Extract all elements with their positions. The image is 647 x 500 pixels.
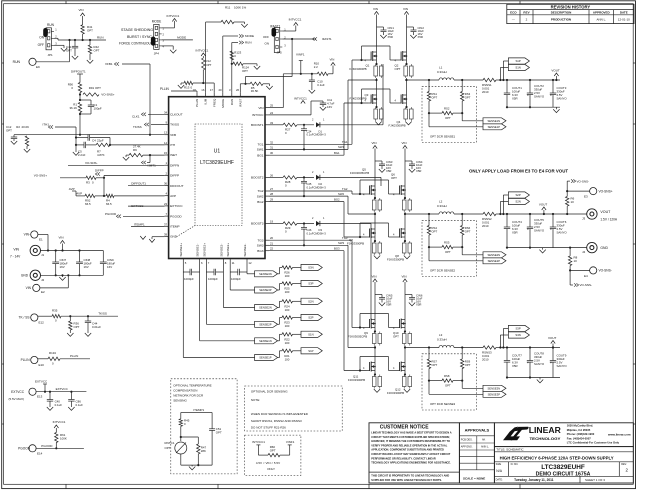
svg-text:CIRCUIT BOARD LAYOUT MAY SIGNI: CIRCUIT BOARD LAYOUT MAY SIGNIFICANTLY A… (371, 452, 450, 456)
ground at JP1 pin3 (54, 44, 64, 46)
svg-text:22: 22 (270, 247, 274, 251)
svg-text:VIN-: VIN- (24, 233, 30, 237)
svg-text:TG3: TG3 (342, 236, 348, 240)
svg-text:SW2: SW2 (257, 194, 264, 198)
svg-text:1000pF: 1000pF (184, 277, 194, 281)
svg-text:E9: E9 (36, 65, 40, 69)
net flag S3N (301, 264, 322, 270)
svg-text:15: 15 (164, 151, 168, 155)
wire TG2 gate drive with bridge (269, 190, 352, 192)
capacitor COUT3 330uF 2.5V SANYO (552, 80, 554, 93)
snubber blocks below bottom FETs (372, 377, 376, 387)
wire MODE net from JP4 pin3 (162, 39, 193, 41)
svg-text:ON: ON (39, 36, 44, 40)
resistor R24 100 (282, 300, 293, 303)
transistor Q11 bottom left (369, 362, 371, 371)
svg-text:TG2: TG2 (257, 189, 263, 193)
svg-text:E4: E4 (584, 274, 588, 278)
net MODE chevron (222, 36, 224, 93)
resistor RSNS2 0.001 2010 sense (483, 212, 496, 215)
net flag SENSE2P (255, 321, 278, 327)
svg-text:J3: J3 (582, 217, 586, 221)
svg-text:X5R: X5R (418, 35, 423, 39)
svg-text:+: + (527, 361, 529, 365)
resistor RS3 OPT (461, 80, 463, 92)
svg-text:FJK03300PB: FJK03300PB (387, 258, 404, 262)
transistor Q12 bottom right (399, 362, 401, 371)
svg-text:ONLY: ONLY (267, 467, 275, 471)
svg-text:22pF: 22pF (97, 139, 104, 143)
U1 top pins (196, 93, 198, 97)
svg-text:RUN: RUN (230, 99, 234, 106)
svg-text:X5R: X5R (512, 97, 518, 101)
svg-text:1630 McCarthy Blvd.: 1630 McCarthy Blvd. (567, 424, 594, 428)
svg-text:TG3: TG3 (257, 238, 263, 242)
svg-text:VIN: VIN (372, 141, 377, 145)
resistor RS1 OPT (428, 80, 430, 92)
net flag S2N (508, 198, 529, 204)
svg-text:RS5: RS5 (444, 241, 450, 245)
wire output bottom rail phase 2 (507, 247, 560, 249)
svg-text:RS2: RS2 (444, 107, 450, 111)
svg-text:0.33uH: 0.33uH (437, 204, 447, 208)
svg-text:J4: J4 (582, 250, 586, 254)
snubber blocks below top FETs (372, 334, 376, 344)
wire output bottom rail phase 3 (507, 377, 560, 379)
svg-text:CMDSH-3: CMDSH-3 (314, 133, 327, 137)
capacitor CIN2 10uF 16V X5R (407, 26, 414, 28)
svg-text:INTVCC1: INTVCC1 (294, 97, 307, 101)
capacitor CIN9 180uF 16V (102, 251, 104, 263)
svg-text:SENSE2+: SENSE2+ (202, 243, 206, 257)
svg-text:VO-SNS+: VO-SNS+ (101, 93, 115, 97)
svg-text:0.1uF: 0.1uF (317, 83, 325, 87)
revision history table (507, 4, 634, 23)
svg-text:OPT: OPT (95, 86, 101, 90)
svg-text:MODE: MODE (221, 99, 225, 108)
svg-text:L3: L3 (439, 333, 443, 337)
wire SENSE1P from U1 pin (182, 272, 184, 358)
svg-text:SW1: SW1 (338, 145, 345, 149)
svg-text:INTVCC1: INTVCC1 (196, 49, 209, 53)
resistor R25 100 (282, 282, 293, 285)
ground temp network (191, 465, 193, 466)
capacitor COUT6 330uF 2.5V SANYO (552, 214, 554, 227)
wire bottom of temp network (181, 464, 212, 466)
svg-text:LINEAR: LINEAR (529, 426, 561, 435)
svg-text:TK/SS: TK/SS (170, 123, 179, 127)
dashed box OPT DCR SENSE3 (422, 354, 476, 410)
svg-text:OPT: OPT (445, 116, 451, 120)
svg-text:VINF1: VINF1 (296, 53, 305, 57)
svg-text:SW3: SW3 (257, 244, 264, 248)
svg-text:SENSING: SENSING (173, 399, 187, 403)
wire SENSE1N from U1 pin (199, 272, 201, 341)
svg-text:VOUT: VOUT (600, 210, 611, 214)
wire RUN horizontal (54, 37, 58, 39)
svg-text:OPT DCR SENSE2: OPT DCR SENSE2 (430, 269, 456, 273)
svg-text:100: 100 (285, 357, 290, 361)
capacitor C44 0.01uF (87, 316, 89, 321)
jack J3 VOUT output (560, 213, 587, 215)
svg-text:DIFFP: DIFFP (170, 174, 179, 178)
svg-text:C4: C4 (92, 139, 96, 143)
svg-text:VO-SNS+: VO-SNS+ (599, 189, 613, 193)
svg-text:OPT: OPT (465, 363, 471, 367)
svg-text:R91: R91 (89, 86, 95, 90)
svg-text:E1: E1 (39, 238, 43, 242)
svg-text:VIN: VIN (402, 275, 407, 279)
svg-text:X5R: X5R (386, 303, 391, 307)
svg-text:OPT: OPT (393, 335, 399, 339)
transistor Q1 FJK03300PB top left (370, 52, 372, 61)
svg-text:S3P: S3P (308, 282, 313, 286)
svg-text:29: 29 (270, 198, 274, 202)
net flag SENSE2N (255, 305, 278, 311)
svg-text:12-01-10: 12-01-10 (618, 18, 630, 22)
svg-text:E14: E14 (37, 451, 43, 455)
svg-text:SANYO: SANYO (557, 231, 568, 235)
resistor R91 OPT to VO-SNS+ (83, 93, 99, 96)
svg-text:VOUT: VOUT (548, 336, 557, 340)
svg-text:27: 27 (270, 187, 274, 191)
transistor Q5 FJK03005CPB top left (369, 186, 371, 195)
svg-text:28: 28 (270, 192, 274, 196)
svg-text:S2N: S2N (515, 200, 520, 204)
svg-text:PERFORMANCE OR RELIABILITY. C: PERFORMANCE OR RELIABILITY. CONTACT LINE… (371, 456, 436, 460)
transistor Q7 bottom left (369, 229, 371, 238)
U1 right pins (265, 107, 269, 109)
svg-text:VO-SNS-: VO-SNS- (580, 283, 593, 287)
capacitor C5 2.2nF (76, 144, 84, 146)
dashed box low VIN option (245, 435, 301, 475)
svg-text:26: 26 (236, 88, 240, 92)
svg-text:GND: GND (600, 246, 608, 250)
svg-text:R11: R11 (225, 6, 231, 10)
svg-text:TK / SS: TK / SS (19, 316, 30, 320)
wire RUN from E9 to JP1 net (36, 61, 69, 63)
svg-text:PCB DES.: PCB DES. (461, 438, 473, 441)
resistor R26 100 (282, 266, 293, 269)
svg-text:VO-SNS-: VO-SNS- (577, 179, 590, 183)
svg-text:36.1K: 36.1K (69, 106, 77, 110)
svg-text:0.01uF: 0.01uF (92, 325, 101, 329)
ground at R11 (241, 24, 247, 27)
wire output bottom rail phase 1 (507, 106, 560, 108)
wire TG1 gate drive with bridge (269, 143, 352, 145)
svg-text:X5R: X5R (388, 35, 393, 39)
resistor R60 OPT (258, 454, 268, 456)
svg-text:100: 100 (285, 290, 290, 294)
svg-text:17: 17 (210, 88, 214, 92)
resistor R42 OPT (89, 40, 91, 45)
svg-text:NOTE:: NOTE: (251, 398, 260, 402)
svg-text:20.0K: 20.0K (22, 125, 30, 129)
grounds of bank 1 (375, 122, 381, 125)
svg-text:VIN: VIN (79, 8, 84, 12)
svg-text:36: 36 (164, 182, 168, 186)
svg-text:S1N: S1N (515, 66, 520, 70)
svg-text:ITEMP: ITEMP (170, 225, 179, 229)
ground output phase 2 (542, 248, 544, 250)
capacitor COUT2 330uF 2.5V SANYO (529, 80, 531, 93)
capacitor C25 0.1uF boost (303, 177, 305, 181)
svg-text:OPT: OPT (432, 363, 438, 367)
svg-text:4.87K: 4.87K (97, 153, 105, 157)
svg-text:OPT DCR SENSE1: OPT DCR SENSE1 (430, 135, 456, 139)
svg-text:ITEMP1: ITEMP1 (134, 223, 145, 227)
svg-text:R2: R2 (16, 125, 20, 129)
svg-text:+: + (527, 228, 529, 232)
svg-text:DO NOT STUFF R21-R26: DO NOT STUFF R21-R26 (251, 426, 286, 430)
svg-text:7 - 14V: 7 - 14V (10, 255, 21, 259)
svg-text:DATE: DATE (620, 11, 628, 15)
svg-text:20: 20 (218, 88, 222, 92)
net flag SENSE1P (428, 120, 430, 127)
svg-text:SENSE3N: SENSE3N (488, 386, 501, 390)
svg-text:SENSE3N: SENSE3N (259, 272, 272, 276)
net INTVCC1 with capacitor C11 4.7uF 16V (269, 114, 311, 116)
dashed box optional DCR sensing notes (245, 386, 343, 431)
svg-text:34: 34 (164, 110, 168, 114)
svg-text:16: 16 (201, 88, 205, 92)
svg-text:100: 100 (285, 341, 290, 345)
net flag S3N (508, 332, 529, 338)
svg-text:SENSE2P: SENSE2P (259, 322, 272, 326)
wire SENSE3N from U1 pin (246, 272, 248, 274)
capacitor C1 100pF (80, 99, 91, 101)
svg-text:APPROVED: APPROVED (593, 11, 611, 15)
svg-text:IFAST: IFAST (238, 99, 242, 108)
svg-text:25: 25 (270, 104, 274, 108)
net flag S2P (301, 314, 322, 320)
svg-text:BG2: BG2 (257, 200, 263, 204)
svg-text:DIFFOUT: DIFFOUT (170, 184, 184, 188)
svg-text:E3: E3 (584, 195, 588, 199)
svg-text:OPT: OPT (74, 325, 80, 329)
resistor R47 28K (181, 436, 199, 438)
svg-text:S2P: S2P (308, 316, 313, 320)
svg-text:TG1: TG1 (257, 143, 263, 147)
svg-text:11: 11 (232, 261, 235, 265)
svg-text:E12: E12 (39, 321, 45, 325)
diode D3 CMDSH-3 (316, 221, 320, 226)
resistor RS4 OPT (428, 214, 430, 226)
svg-text:SENSE1P: SENSE1P (259, 356, 272, 360)
svg-text:AK: AK (482, 438, 486, 441)
svg-text:DIFFOUT1: DIFFOUT1 (71, 70, 86, 74)
svg-text:GND: GND (170, 235, 178, 239)
svg-text:31: 31 (270, 145, 274, 149)
svg-text:TK/SS: TK/SS (133, 125, 142, 129)
capacitor C23 1000pF (229, 263, 231, 273)
capacitor C4 22pF (75, 136, 77, 138)
resistor RSNS1 0.001 2010 sense (483, 78, 496, 81)
net flag SENSE1N (255, 338, 278, 344)
snubber blocks below bottom FETs (372, 243, 376, 253)
svg-text:OPT: OPT (432, 229, 438, 233)
resistor R28 0 boost (269, 176, 283, 178)
svg-text:66.5: 66.5 (85, 202, 91, 206)
wire GND rail (41, 274, 104, 276)
capacitor COUT9 330uF 2.5V SANYO (552, 348, 554, 361)
svg-text:24: 24 (270, 111, 274, 115)
svg-text:IFAST1: IFAST1 (322, 37, 332, 41)
wire BG1 gate drive with bridge (269, 154, 344, 156)
capacitor COUT1 100uF 6.3V X5R (506, 80, 508, 93)
svg-text:EXTVCC: EXTVCC (56, 387, 69, 391)
svg-text:+: + (550, 228, 552, 232)
wire IFAST net from JP5 pin2 (282, 38, 316, 40)
net CLK1 chevron on CLKOUT (148, 113, 165, 115)
svg-text:1000pF: 1000pF (208, 277, 218, 281)
svg-text:PGOOD: PGOOD (105, 212, 117, 216)
op-amp U1 LTC3829EUHF controller IC body (169, 97, 265, 259)
transistor Q6 OPT top right (399, 186, 401, 195)
net TK/SS chevron (151, 124, 165, 126)
capacitor C26 0.1uF boost (303, 224, 305, 228)
svg-text:1.5V / 120A: 1.5V / 120A (600, 218, 618, 222)
svg-text:100: 100 (285, 274, 290, 278)
svg-text:32: 32 (270, 140, 274, 144)
svg-text:FORCE CONTINUOUS: FORCE CONTINUOUS (119, 41, 153, 45)
svg-text:SENSE1P: SENSE1P (488, 125, 501, 129)
svg-text:+: + (527, 94, 529, 98)
svg-text:SHEET 1 OF 3: SHEET 1 OF 3 (585, 478, 605, 482)
svg-text:TECHNOLOGY APPLICATIONS ENGINE: TECHNOLOGY APPLICATIONS ENGINEERING FOR … (371, 461, 451, 465)
snubber blocks below top FETs (374, 66, 378, 76)
svg-text:BG3: BG3 (334, 247, 340, 251)
svg-text:E13: E13 (37, 395, 43, 399)
svg-text:23: 23 (164, 202, 168, 206)
svg-text:MODE: MODE (177, 36, 186, 40)
svg-text:BOOST2: BOOST2 (251, 176, 264, 180)
svg-text:37: 37 (164, 222, 168, 226)
capacitor C21 1000pF (182, 263, 184, 273)
svg-text:X5R: X5R (512, 231, 518, 235)
svg-text:VO-SNS+: VO-SNS+ (34, 174, 48, 178)
capacitor CIN6 10uF 16V X5R (405, 294, 412, 296)
wire VIN pin 25 (269, 107, 283, 109)
svg-text:1000pF: 1000pF (231, 277, 241, 281)
title block approvals (459, 423, 494, 483)
svg-text:VERIFY PROPER AND RELIABLE OPE: VERIFY PROPER AND RELIABLE OPERATION IN … (371, 443, 447, 447)
turret E3 VO-SNS+ (590, 188, 597, 195)
svg-text:FJK03005CPB: FJK03005CPB (350, 171, 369, 175)
resistor R22 100 (282, 333, 293, 336)
net flag S2N (301, 298, 322, 304)
svg-text:Tuesday, January 11, 2011: Tuesday, January 11, 2011 (514, 478, 554, 482)
svg-text:CIRCUIT THAT MEETS CUSTOMER-SU: CIRCUIT THAT MEETS CUSTOMER-SUPPLIED SPE… (371, 435, 450, 439)
svg-text:JP4: JP4 (154, 52, 160, 56)
svg-text:LTC3829EUHF: LTC3829EUHF (541, 464, 585, 471)
svg-text:FJK03300PB: FJK03300PB (347, 242, 364, 246)
resistor R124 OPT to ground (231, 63, 233, 65)
svg-text:S3P: S3P (515, 327, 520, 331)
wire ITH (110, 144, 165, 146)
svg-text:ILIM: ILIM (204, 98, 208, 104)
diode D2 CMDSH-3 (316, 175, 320, 180)
resistor R36 OPT (69, 316, 71, 321)
svg-text:20: 20 (270, 236, 274, 240)
svg-text:COMPENSATION: COMPENSATION (173, 389, 197, 393)
svg-text:SENSE3-: SENSE3- (243, 244, 247, 257)
U1 bottom pins SENSE (182, 259, 184, 263)
border zone ticks (65, 1, 67, 4)
resistor R13 0 to ground on FREQ (213, 83, 215, 93)
svg-text:L2: L2 (439, 200, 443, 204)
resistor R90 0 (78, 83, 81, 93)
svg-text:SUPPLIED FOR USE WITH LINEAR T: SUPPLIED FOR USE WITH LINEAR TECHNOLOGY … (371, 478, 442, 482)
svg-text:14: 14 (164, 141, 168, 145)
transistor Q3 bottom left (370, 95, 372, 104)
wire BG3 gate drive with bridge (269, 250, 344, 252)
svg-text:HIGH EFFICIENCY 6-PHASE 120A S: HIGH EFFICIENCY 6-PHASE 120A STEP-DOWN S… (500, 455, 614, 460)
net flag S1N (508, 64, 529, 70)
svg-text:LINEAR TECHNOLOGY HAS MADE A B: LINEAR TECHNOLOGY HAS MADE A BEST EFFORT… (371, 431, 451, 435)
transistor Q9 FJK03005CPB top left (369, 319, 371, 328)
resistor R10 2.2 VIN filter (283, 73, 317, 75)
svg-text:CLKOUT: CLKOUT (170, 113, 183, 117)
net flag SENSE2P (428, 254, 430, 261)
svg-text:SHORT RSNS1, RSNS2 AND RSNS3: SHORT RSNS1, RSNS2 AND RSNS3 (251, 419, 302, 423)
svg-text:OPT: OPT (216, 431, 222, 435)
resistor R11 100K 1% on ILIM (205, 22, 207, 93)
svg-text:REV.: REV. (621, 463, 627, 466)
capacitor CIN7 180uF 16V (55, 251, 57, 263)
svg-text:RUN: RUN (47, 23, 55, 27)
resistor RS6 OPT (461, 214, 463, 226)
svg-text:PLLIN: PLLIN (21, 358, 31, 362)
svg-text:2010: 2010 (482, 224, 489, 228)
net flag SENSE3P (428, 387, 430, 394)
svg-text:OPTIONAL TEMPERATURE: OPTIONAL TEMPERATURE (173, 384, 211, 388)
net flag S3P (508, 325, 529, 331)
svg-text:ITH: ITH (170, 143, 175, 147)
svg-text:PLLIN: PLLIN (70, 354, 78, 358)
svg-text:SENSE2N: SENSE2N (259, 306, 272, 310)
svg-text:STAGE SHEDDING: STAGE SHEDDING (121, 28, 154, 32)
resistor R45 0 (179, 419, 182, 427)
ground output phase 3 (539, 378, 541, 380)
svg-text:100: 100 (285, 324, 290, 328)
transistor Q10 OPT top right (399, 319, 401, 328)
svg-text:SANYO: SANYO (534, 362, 545, 366)
svg-text:WHEN DCR SENSING IS IMPLEMENTE: WHEN DCR SENSING IS IMPLEMENTED (251, 412, 309, 416)
svg-text:OPT: OPT (270, 449, 276, 453)
wire VFB (80, 134, 165, 136)
svg-text:DATE:: DATE: (496, 479, 503, 482)
svg-text:TG2: TG2 (342, 187, 348, 191)
net flag VO-SNS- bottom (569, 270, 571, 285)
svg-text:12: 12 (248, 261, 252, 265)
svg-text:OPT DCR SENSE3: OPT DCR SENSE3 (430, 402, 456, 406)
svg-text:OPT: OPT (242, 69, 248, 73)
svg-text:ITH1: ITH1 (43, 123, 50, 127)
svg-text:OPT: OPT (94, 49, 100, 53)
svg-text:VIN: VIN (13, 248, 19, 252)
capacitor C24 0.1uF boost (303, 125, 305, 129)
svg-text:LTC3829EUHF: LTC3829EUHF (200, 160, 234, 166)
svg-text:CMDSH-3: CMDSH-3 (314, 231, 327, 235)
svg-text:100: 100 (285, 308, 290, 312)
capacitor COUT4 100uF 6.3V X5R (506, 214, 508, 227)
snubber blocks below bottom FETs (374, 109, 378, 119)
svg-text:RUN: RUN (13, 60, 21, 64)
resistor R29 0 boost (269, 223, 283, 225)
svg-text:PRODUCTION: PRODUCTION (551, 18, 571, 22)
svg-text:VFB1: VFB1 (105, 62, 113, 66)
